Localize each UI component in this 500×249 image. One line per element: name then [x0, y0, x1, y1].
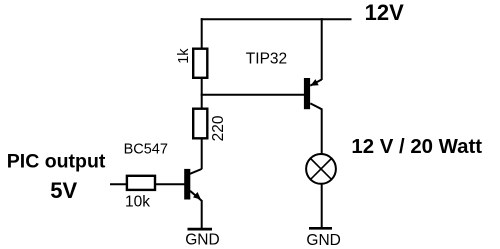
svg-text:TIP32: TIP32: [246, 51, 287, 68]
svg-text:GND: GND: [306, 232, 340, 249]
label 10k: [125, 193, 150, 210]
svg-text:220: 220: [210, 115, 227, 141]
label 12 V / 20 Watt: [351, 136, 482, 158]
wire lamp to ground: [321, 184, 323, 229]
wire PIC output to 10k: [110, 183, 127, 185]
resistor 10k: [127, 176, 155, 190]
label TIP32: [246, 51, 287, 68]
svg-text:PIC output: PIC output: [7, 151, 106, 173]
ground right: [309, 227, 332, 230]
label 1k: [176, 48, 192, 64]
svg-text:BC547: BC547: [124, 141, 168, 157]
wire 220 to BC547 collector: [201, 139, 203, 170]
resistor 1k: [193, 49, 207, 78]
svg-text:5V: 5V: [50, 178, 77, 203]
label PIC output: [7, 151, 106, 173]
ground left: [188, 228, 213, 231]
wire BC547 emitter to ground: [201, 200, 203, 229]
wire 10k to BC547 base: [155, 183, 185, 185]
svg-text:12V: 12V: [365, 0, 404, 25]
svg-text:12 V / 20 Watt: 12 V / 20 Watt: [351, 136, 482, 158]
resistor 220: [193, 109, 207, 139]
label 5V: [50, 178, 77, 203]
svg-text:10k: 10k: [125, 193, 150, 210]
label BC547: [124, 141, 168, 157]
lamp 12V 20W: [306, 154, 336, 184]
svg-text:GND: GND: [185, 232, 219, 249]
wire 12V top rail: [201, 18, 352, 20]
transistor BC547: [184, 169, 201, 201]
wire rail down to 1k resistor: [201, 18, 203, 48]
transistor TIP32: [304, 18, 322, 155]
label 220: [210, 115, 227, 141]
wire 1k to 220: [201, 78, 203, 109]
label GND left: [185, 232, 219, 249]
svg-text:1k: 1k: [176, 48, 192, 64]
label GND right: [306, 232, 340, 249]
label 12V: [365, 0, 404, 25]
wire node to TIP32 base: [201, 94, 305, 96]
